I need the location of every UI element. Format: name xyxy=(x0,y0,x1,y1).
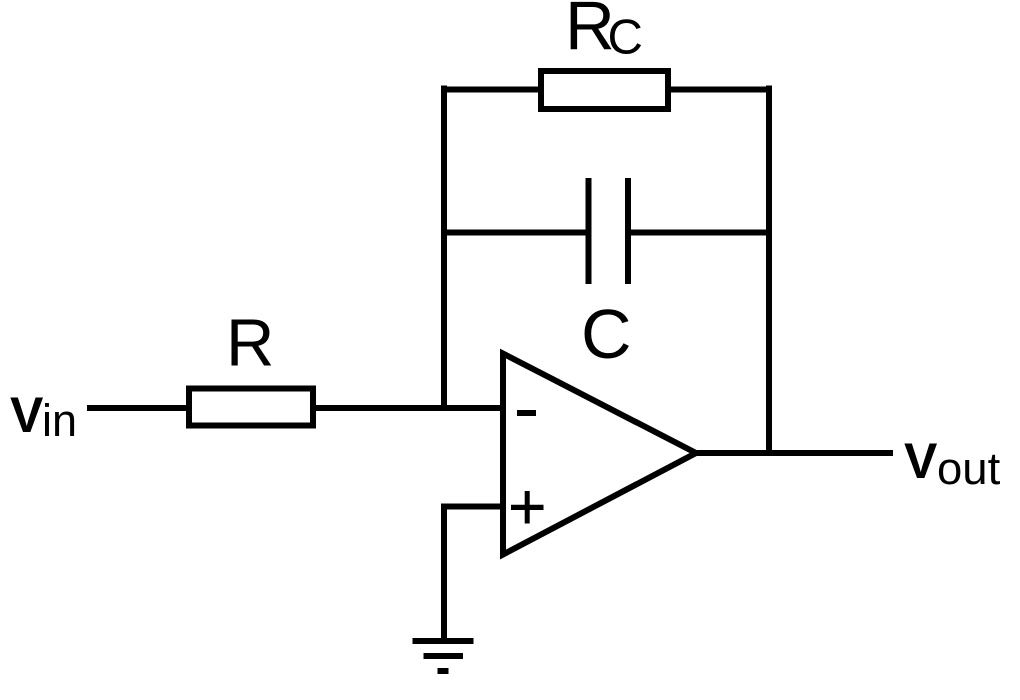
svg-text:V: V xyxy=(904,433,938,489)
svg-text:in: in xyxy=(42,395,77,446)
wire: input Vin to inverting input xyxy=(87,405,503,411)
svg-text:V: V xyxy=(10,387,44,443)
svg-text:C: C xyxy=(581,295,632,373)
resistor R (input resistor) xyxy=(189,389,313,426)
wire: top feedback rail (node Vout net to inverting node) xyxy=(441,87,772,93)
pin label: non-inverting input (+) xyxy=(511,505,544,510)
wire: left feedback vertical (inverting node riser) xyxy=(441,86,447,412)
svg-text:R: R xyxy=(226,306,274,381)
wire: output to Vout xyxy=(695,450,893,456)
wire: non-inverting input to ground riser xyxy=(444,504,503,510)
resistor RC (feedback resistor) xyxy=(541,71,668,109)
pin label: inverting input (-) xyxy=(517,410,536,416)
wire: ground riser xyxy=(441,504,447,642)
wire: capacitor rail right segment xyxy=(631,230,772,236)
capacitor C plates xyxy=(586,178,592,284)
svg-text:C: C xyxy=(608,11,643,65)
wire: capacitor rail left segment xyxy=(441,230,586,236)
op-amp U1 xyxy=(503,354,696,555)
wire: right feedback vertical (output riser) xyxy=(766,86,772,457)
ground xyxy=(413,638,474,644)
svg-text:out: out xyxy=(937,443,1001,494)
